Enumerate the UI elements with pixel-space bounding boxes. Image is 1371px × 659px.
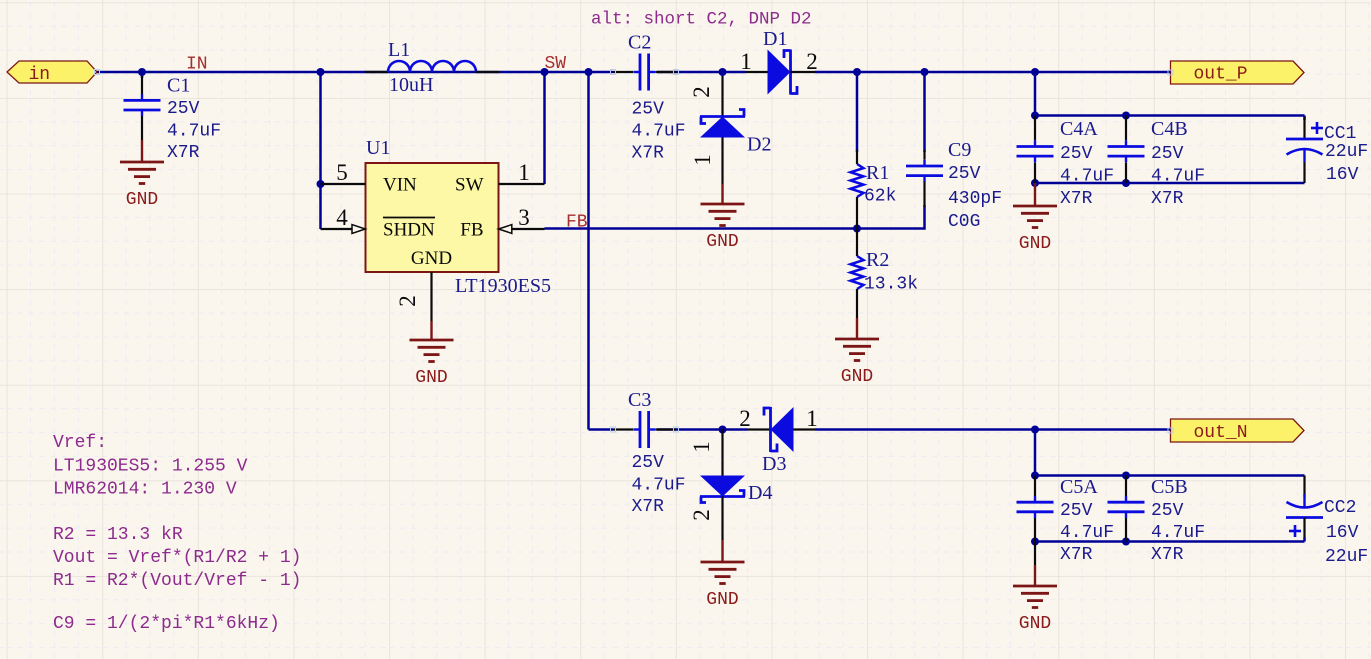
svg-text:SW: SW — [545, 54, 567, 74]
svg-text:C9: C9 — [948, 139, 971, 161]
comment alt-note — [591, 10, 812, 30]
wire C4 bank drop — [1034, 72, 1037, 116]
wire out_N net: D3 anode to out_N port — [815, 428, 1171, 431]
svg-text:4.7uF: 4.7uF — [1151, 167, 1205, 187]
svg-text:D4: D4 — [748, 482, 772, 504]
wire R1 top drop — [856, 72, 859, 152]
svg-text:CC2: CC2 — [1324, 498, 1356, 518]
capacitor C1 — [124, 75, 222, 164]
op-amp U1 LT1930ES5 body — [366, 137, 551, 297]
ground U1 — [410, 321, 454, 388]
junction C5 rail top C5B (1126,475.5) — [1122, 472, 1130, 480]
svg-text:3: 3 — [518, 205, 530, 230]
wire FB net: U1 pin3 to R1/R2/C9 — [545, 205, 925, 229]
svg-text:LT1930ES5: 1.255 V: LT1930ES5: 1.255 V — [53, 457, 248, 477]
svg-text:4.7uF: 4.7uF — [1060, 523, 1114, 543]
svg-text:C9 = 1/(2*pi*R1*6kHz): C9 = 1/(2*pi*R1*6kHz) — [53, 614, 280, 634]
U1 pin 4 SHDN — [321, 205, 366, 233]
svg-text:2: 2 — [806, 49, 818, 74]
wire SW vertical to C3 (x=588.5) — [587, 72, 590, 430]
ground D2 — [701, 184, 745, 252]
svg-text:2: 2 — [739, 406, 751, 431]
pin-end marker C3 left — [611, 427, 616, 432]
capacitor C5A — [1017, 476, 1115, 566]
svg-text:25V: 25V — [1151, 144, 1184, 164]
svg-text:C5A: C5A — [1060, 476, 1098, 498]
svg-text:2: 2 — [689, 86, 714, 98]
junction C4 rail bot left (1035,183) — [1031, 179, 1039, 187]
junction outN/C5bank (1035,429.5) — [1031, 426, 1039, 434]
svg-text:4: 4 — [336, 205, 348, 230]
svg-text:VIN: VIN — [383, 175, 417, 196]
svg-text:16V: 16V — [1326, 165, 1359, 185]
svg-text:22uF: 22uF — [1325, 547, 1368, 567]
junction IN/U1 (320.5,72) — [317, 68, 325, 76]
port out_N (output) — [1171, 419, 1305, 443]
junction outP/C9 (924.5,72) — [921, 68, 929, 76]
svg-text:GND: GND — [411, 248, 452, 269]
svg-text:X7R: X7R — [1151, 189, 1184, 209]
inductor L1 — [365, 39, 499, 96]
resistor R2 — [851, 229, 919, 319]
svg-text:CC1: CC1 — [1324, 124, 1356, 144]
svg-text:C5B: C5B — [1151, 476, 1188, 498]
svg-text:25V: 25V — [1151, 501, 1184, 521]
U1 pin 1 SW — [499, 160, 545, 185]
svg-text:X7R: X7R — [632, 144, 665, 164]
ground C5A — [1013, 542, 1057, 635]
svg-text:R1: R1 — [866, 162, 889, 184]
wire C4 bank bottom rail — [1035, 182, 1305, 185]
svg-text:Vref:: Vref: — [53, 433, 107, 453]
capacitor CC1 (polarized) — [1286, 117, 1368, 185]
junction SW/D2 (722.5,72) — [719, 68, 727, 76]
comment Vref block — [53, 433, 248, 500]
svg-text:22uF: 22uF — [1325, 142, 1368, 162]
wire C5 bank drop — [1034, 430, 1037, 476]
svg-text:U1: U1 — [366, 137, 390, 159]
wire SW top segment C2-right to D1 — [657, 71, 745, 74]
svg-text:GND: GND — [841, 367, 873, 387]
svg-text:GND: GND — [1019, 614, 1051, 634]
svg-text:in: in — [29, 65, 51, 85]
wire IN net: in port to C2 left pin — [97, 71, 613, 74]
svg-text:X7R: X7R — [167, 143, 200, 163]
wire C1 drop at x=142 — [141, 74, 144, 78]
svg-text:LT1930ES5: LT1930ES5 — [455, 275, 551, 297]
ground R2 — [835, 318, 879, 387]
wire C3 horizontal from x=588.5 — [589, 428, 614, 431]
wire out_P net: D1 cathode to out_P port — [815, 71, 1171, 74]
junction outP/C4bank (1035,72) — [1031, 68, 1039, 76]
capacitor CC2 (polarized) — [1286, 476, 1368, 568]
svg-text:1: 1 — [690, 154, 715, 166]
svg-text:out_P: out_P — [1194, 65, 1248, 85]
svg-text:13.3k: 13.3k — [864, 275, 918, 295]
svg-text:SHDN: SHDN — [383, 220, 435, 241]
svg-text:C2: C2 — [628, 32, 651, 54]
svg-text:4.7uF: 4.7uF — [632, 122, 686, 142]
junction U1 pin5 (320.5,184) — [317, 180, 325, 188]
net label SW — [545, 54, 567, 74]
svg-text:4.7uF: 4.7uF — [167, 122, 221, 142]
svg-text:FB: FB — [460, 220, 483, 241]
svg-text:25V: 25V — [948, 164, 981, 184]
diode D4 (schottky) — [689, 430, 772, 541]
svg-text:IN: IN — [186, 55, 208, 75]
U1 pin 3 FB — [499, 205, 545, 233]
svg-text:62k: 62k — [864, 187, 896, 207]
ground C4A — [1013, 183, 1057, 254]
ground D4 — [701, 540, 745, 610]
svg-text:Vout = Vref*(R1/R2 + 1): Vout = Vref*(R1/R2 + 1) — [53, 548, 301, 568]
junction C5 rail top left (1035,475.5) — [1031, 472, 1039, 480]
junction C4 rail top left (1035,115.5) — [1031, 112, 1039, 120]
port out_P (output) — [1171, 61, 1305, 85]
capacitor C4B — [1108, 116, 1206, 210]
port in (input) — [7, 61, 97, 85]
svg-text:10uH: 10uH — [389, 74, 433, 96]
svg-text:FB: FB — [566, 213, 588, 233]
junction C5 rail bot C5B (1126,541.5) — [1122, 538, 1130, 546]
svg-text:R1 = R2*(Vout/Vref - 1): R1 = R2*(Vout/Vref - 1) — [53, 571, 301, 591]
ground C1 — [120, 140, 164, 210]
pin-end marker out_P — [1168, 70, 1173, 75]
capacitor C4A — [1017, 116, 1115, 210]
svg-text:4.7uF: 4.7uF — [632, 476, 686, 496]
wire C5 bank top rail — [1035, 474, 1305, 477]
svg-text:C4A: C4A — [1060, 118, 1098, 140]
capacitor C3 — [613, 389, 686, 517]
svg-text:2: 2 — [395, 295, 420, 307]
wire CC2 bottom pin — [1303, 537, 1306, 542]
svg-text:X7R: X7R — [632, 497, 665, 517]
svg-text:D1: D1 — [763, 28, 787, 50]
diode D2 (schottky) — [689, 76, 771, 184]
wire C9 top drop — [923, 72, 926, 152]
svg-text:5: 5 — [336, 160, 348, 185]
net label FB — [566, 213, 588, 233]
svg-text:X7R: X7R — [1060, 545, 1093, 565]
U1 pin 5 VIN — [321, 160, 366, 185]
resistor R1 — [851, 150, 897, 229]
svg-text:X7R: X7R — [1151, 545, 1184, 565]
svg-text:LMR62014: 1.230 V: LMR62014: 1.230 V — [53, 480, 237, 500]
svg-text:4.7uF: 4.7uF — [1060, 167, 1114, 187]
junction SW/C3-drop (588.5,72) — [585, 68, 593, 76]
wire CC1 top pin drop — [1303, 116, 1306, 121]
junction C4 rail bot C4B (1126,183) — [1122, 179, 1130, 187]
svg-text:GND: GND — [415, 368, 447, 388]
svg-text:25V: 25V — [632, 100, 665, 120]
diode D1 (schottky) — [740, 28, 818, 95]
svg-text:R2 = 13.3 kR: R2 = 13.3 kR — [53, 525, 183, 545]
svg-text:C0G: C0G — [948, 212, 980, 232]
svg-text:16V: 16V — [1326, 523, 1359, 543]
pin-end marker out_N — [1168, 428, 1173, 433]
wire out_N net segment C3 to D3 — [657, 428, 747, 431]
svg-text:430pF: 430pF — [948, 189, 1002, 209]
svg-text:D2: D2 — [747, 134, 771, 156]
svg-text:SW: SW — [455, 175, 484, 196]
net label IN — [186, 55, 208, 75]
capacitor C9 — [906, 139, 1002, 232]
junction FB/R1R2 (857,228.5) — [853, 225, 861, 233]
capacitor C2 — [613, 32, 686, 164]
svg-text:GND: GND — [706, 590, 738, 610]
pin-end marker C3 right — [674, 427, 679, 432]
U1 pin 2 GND — [395, 272, 432, 321]
svg-text:GND: GND — [706, 232, 738, 252]
svg-text:1: 1 — [740, 49, 752, 74]
svg-text:1: 1 — [518, 160, 530, 185]
svg-text:4.7uF: 4.7uF — [1151, 523, 1205, 543]
junction SW/pin1 (544.5,72) — [541, 68, 549, 76]
junction C5 rail bot left (1035,541.5) — [1031, 538, 1039, 546]
comment formula block — [53, 525, 301, 591]
svg-text:C3: C3 — [628, 389, 651, 411]
svg-text:L1: L1 — [388, 39, 410, 61]
svg-text:25V: 25V — [632, 453, 665, 473]
svg-text:1: 1 — [806, 406, 818, 431]
junction C4 rail top C4B (1126,115.5) — [1122, 112, 1130, 120]
svg-text:C1: C1 — [167, 75, 190, 97]
wire U1 VIN/SHDN drop at x=320.5 — [319, 72, 322, 229]
svg-text:2: 2 — [689, 509, 714, 521]
svg-text:R2: R2 — [866, 249, 889, 271]
svg-text:X7R: X7R — [1060, 189, 1093, 209]
pin-end marker C2 left — [611, 70, 616, 75]
svg-text:C4B: C4B — [1151, 118, 1188, 140]
junction outN/D2... (722.5,429.5) — [719, 426, 727, 434]
diode D3 (schottky) — [739, 406, 818, 475]
wire SW vertical to U1 pin1 — [543, 72, 546, 184]
junction IN/C1 (142,72) — [138, 68, 146, 76]
svg-text:25V: 25V — [167, 99, 200, 119]
wire C4 bank top rail — [1035, 114, 1305, 117]
svg-text:GND: GND — [126, 190, 158, 210]
wire C5 bank bottom rail — [1035, 540, 1305, 543]
comment C9 formula — [53, 614, 280, 634]
svg-text:D3: D3 — [762, 453, 786, 475]
svg-text:alt: short C2, DNP D2: alt: short C2, DNP D2 — [591, 10, 812, 30]
svg-text:out_N: out_N — [1194, 423, 1248, 443]
pin-end marker C2 right — [674, 70, 679, 75]
pin-end marker in port — [95, 70, 100, 75]
svg-text:25V: 25V — [1060, 144, 1093, 164]
svg-text:1: 1 — [689, 441, 714, 453]
capacitor C5B — [1108, 476, 1206, 566]
svg-text:GND: GND — [1019, 234, 1051, 254]
svg-text:25V: 25V — [1060, 501, 1093, 521]
junction outP/R1 (857,72) — [853, 68, 861, 76]
